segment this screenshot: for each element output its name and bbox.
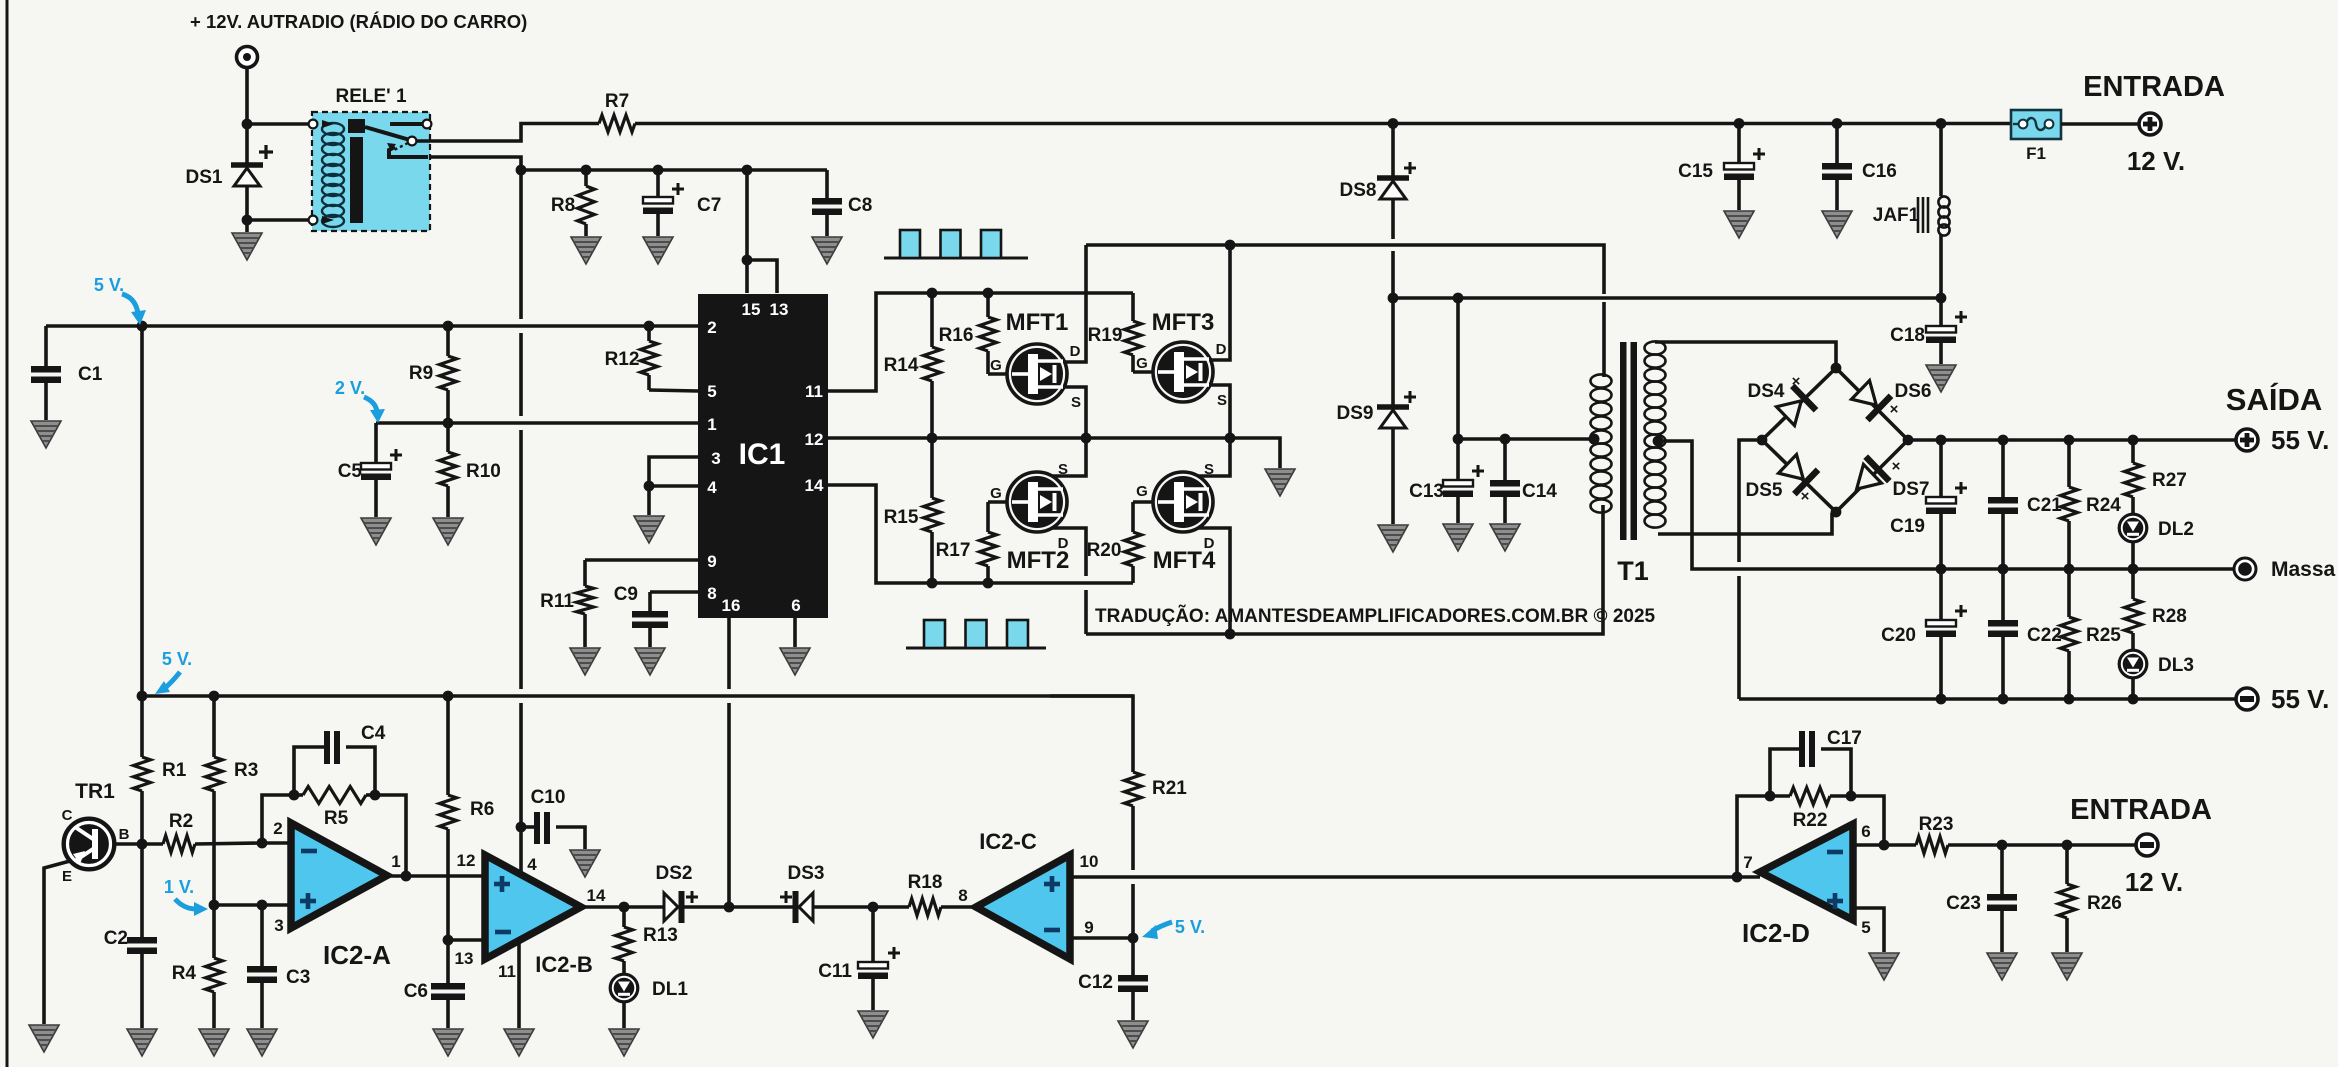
pin D MFT4 (1204, 535, 1215, 552)
svg-text:C6: C6 (404, 981, 428, 1002)
title +12V AUTRADIO (190, 11, 527, 32)
svg-text:5 V.: 5 V. (162, 649, 192, 669)
IC IC1 (698, 294, 828, 618)
capacitor C8 (812, 170, 872, 236)
wire drain top line (1086, 240, 1604, 294)
svg-text:2: 2 (707, 318, 716, 337)
bridge arm DS6 (1836, 368, 1908, 440)
svg-text:G: G (990, 357, 1002, 374)
capacitor C14 (1490, 439, 1557, 523)
wire IC2-A out to IC2-B (387, 871, 485, 882)
svg-text:12 V.: 12 V. (2127, 146, 2185, 176)
capacitor C20 (1881, 569, 1967, 699)
wire R23 to terminal (1948, 840, 2136, 851)
ground under C9 (635, 648, 665, 675)
svg-text:C12: C12 (1078, 972, 1113, 993)
relay RELE' 1 (309, 86, 432, 231)
op-amp IC2-D (1742, 824, 1853, 948)
capacitor C13 (1409, 439, 1484, 523)
wire pin2 net IC2-A (257, 838, 291, 849)
svg-text:×: × (1890, 401, 1899, 418)
wire IC1 pin4 (644, 481, 698, 515)
page border line left (6, 0, 9, 1067)
resistor R3 (206, 696, 259, 905)
resistor R22 (1765, 788, 1857, 832)
svg-text:C4: C4 (361, 723, 386, 744)
bridge arm DS4 (1762, 368, 1836, 440)
label 5V at IC2-C (1175, 917, 1205, 937)
diode DS4 (1748, 373, 1816, 428)
resistor R17 (936, 502, 1007, 583)
transformer T1 core (1620, 342, 1637, 540)
led DL2 (2119, 514, 2194, 569)
svg-text:R22: R22 (1793, 810, 1828, 831)
wire DS1 to ground node (242, 186, 253, 232)
wire IC2-D pin6 (1853, 840, 1916, 851)
svg-text:IC2-A: IC2-A (323, 940, 391, 970)
arrow 1V (175, 899, 208, 916)
wire TR1 base (115, 839, 163, 850)
svg-text:5: 5 (707, 382, 716, 401)
transistor MFT4 (1153, 472, 1216, 574)
svg-text:+ 12V. AUTRADIO (RÁDIO DO CARR: + 12V. AUTRADIO (RÁDIO DO CARRO) (190, 11, 527, 32)
svg-text:DS4: DS4 (1748, 381, 1785, 402)
svg-text:DS2: DS2 (656, 863, 693, 884)
svg-text:×: × (1801, 488, 1810, 505)
svg-text:3: 3 (711, 449, 720, 468)
ground under C7 (643, 237, 673, 264)
resistor R6 (440, 696, 495, 940)
wire secondary center tap to Massa line (1658, 441, 2234, 574)
label ENTRADA top (2083, 71, 2225, 103)
pin 8 IC2-C (958, 886, 967, 905)
svg-text:IC2-B: IC2-B (535, 952, 592, 977)
wire pin3 net IC2-A (209, 900, 291, 911)
svg-text:SAÍDA: SAÍDA (2226, 382, 2322, 417)
svg-text:5: 5 (1861, 918, 1870, 937)
svg-text:14: 14 (805, 476, 824, 495)
diode DS7 (1845, 457, 1930, 502)
svg-text:12 V.: 12 V. (2125, 867, 2183, 897)
svg-text:MFT3: MFT3 (1152, 309, 1215, 336)
svg-text:1: 1 (707, 415, 716, 434)
bridge arm DS5 (1762, 440, 1836, 512)
pin G MFT3 (1136, 355, 1148, 372)
ground under C18 (1926, 365, 1956, 392)
pin G MFT1 (990, 357, 1002, 374)
ground under C6 (433, 1029, 463, 1056)
svg-text:R19: R19 (1088, 325, 1123, 346)
svg-text:C2: C2 (104, 928, 128, 949)
wire branch to pin 13 (747, 260, 777, 293)
svg-text:R15: R15 (884, 507, 919, 528)
resistor R11 on pin9 (540, 560, 698, 647)
transistor MFT2 (1007, 472, 1070, 574)
wire relay contact-2 down to supply column (430, 157, 521, 170)
ground under DS9 (1378, 428, 1408, 552)
svg-text:IC2-D: IC2-D (1742, 918, 1810, 948)
bridge nodes (1757, 363, 1914, 518)
pin 7 IC2-D (1743, 853, 1752, 872)
resistor R20 (1087, 502, 1153, 583)
wire node to relay coil top (247, 122, 311, 126)
svg-text:T1: T1 (1617, 556, 1649, 586)
svg-text:D: D (1070, 343, 1081, 360)
svg-text:R3: R3 (234, 760, 258, 781)
wire IC1 pin3 (649, 457, 698, 486)
pin 1 IC2-A (391, 852, 400, 871)
svg-text:RELE' 1: RELE' 1 (335, 86, 406, 107)
ground under R4 (199, 1029, 229, 1056)
capacitor C19 (1890, 440, 1967, 569)
capacitor C1 (31, 326, 103, 420)
pin 13 IC2-B (455, 949, 474, 968)
svg-text:R14: R14 (884, 355, 919, 376)
svg-text:IC2-C: IC2-C (979, 829, 1037, 854)
wire riser to IC1 pins 15/13 (742, 170, 753, 293)
wire R16 to MFT1 gate (988, 372, 1007, 376)
resistor R13 (616, 907, 678, 975)
svg-text:Massa: Massa (2271, 558, 2336, 581)
capacitor C12 (1078, 938, 1148, 1020)
svg-text:C22: C22 (2027, 625, 2062, 646)
feedback left branch IC2-D (1737, 796, 1770, 877)
bridge arm DS7 (1836, 440, 1908, 512)
resistor R1 (134, 696, 187, 844)
wire F1 to 12V terminal (2061, 122, 2139, 126)
pin 14 IC2-B (587, 886, 606, 905)
wire left column 5V down (140, 326, 144, 696)
svg-text:10: 10 (1080, 852, 1099, 871)
svg-text:S: S (1071, 394, 1081, 411)
wire supply to center tap (1453, 298, 1600, 444)
resistor R15 (884, 438, 941, 583)
svg-text:C19: C19 (1890, 516, 1925, 537)
capacitor C5 (338, 423, 402, 517)
svg-text:R26: R26 (2087, 893, 2122, 914)
ground under C15 (1724, 211, 1754, 238)
ground under IC2-D pin5 (1869, 953, 1899, 980)
svg-text:F1: F1 (2026, 144, 2046, 163)
pin 9 IC2-C (1084, 918, 1093, 937)
wire DS3 to R18 (813, 902, 909, 913)
svg-text:×: × (1792, 373, 1801, 390)
svg-text:DS3: DS3 (788, 863, 825, 884)
arrow 5V bottom (155, 672, 180, 694)
svg-text:R4: R4 (172, 963, 197, 984)
wire MFT2 drain (1052, 528, 1086, 634)
svg-text:R21: R21 (1152, 778, 1187, 799)
capacitor C21 (1988, 440, 2062, 569)
transistor TR1 (62, 780, 130, 885)
svg-text:C16: C16 (1862, 161, 1897, 182)
op-amp IC2-C (976, 829, 1070, 959)
capacitor C10 on pin4 (516, 787, 585, 849)
diode DS2 (656, 863, 698, 923)
wire 2V pin1 net (376, 418, 698, 429)
resistor R18 (908, 872, 976, 916)
transformer T1 primary (1589, 374, 1612, 512)
svg-text:D: D (1216, 341, 1227, 358)
wire MFT1 drain (1064, 245, 1086, 362)
svg-text:16: 16 (722, 596, 741, 615)
waveform pulses top (884, 230, 1028, 258)
svg-text:R24: R24 (2086, 495, 2121, 516)
svg-text:S: S (1217, 392, 1227, 409)
label 5V top (94, 275, 124, 295)
svg-text:R2: R2 (169, 811, 193, 832)
wire secondary top to bridge (1655, 342, 1836, 368)
wire drain top line lower part (1602, 302, 1606, 377)
svg-text:C17: C17 (1827, 728, 1862, 749)
ground under R11 (570, 648, 600, 675)
svg-text:ENTRADA: ENTRADA (2083, 71, 2225, 103)
wire pin13 net (443, 935, 485, 946)
svg-text:C11: C11 (818, 961, 852, 982)
svg-text:D: D (1058, 535, 1069, 552)
terminal Massa (2234, 558, 2256, 580)
wire supply line 298 (1388, 293, 1947, 304)
resistor R21 (1050, 696, 1187, 938)
ground under DL1 (609, 1029, 639, 1056)
svg-text:R9: R9 (409, 363, 433, 384)
svg-text:C15: C15 (1678, 161, 1713, 182)
ground under C11 (858, 1011, 888, 1038)
resistor R7 (599, 91, 635, 132)
svg-text:R17: R17 (936, 540, 971, 561)
pin D MFT2 (1058, 535, 1069, 552)
resistor R9 (409, 326, 457, 423)
svg-text:DL1: DL1 (652, 979, 688, 1000)
wire IC1 pin12 rail (828, 433, 1280, 468)
label T1 (1617, 556, 1649, 586)
inductor JAF1 (1873, 123, 1950, 298)
wire 5V pin2 net (46, 321, 698, 332)
ground under C3 (247, 1029, 277, 1056)
svg-text:R6: R6 (470, 799, 494, 820)
wire drain bottom line (1086, 505, 1603, 639)
op-amp IC2-A (291, 823, 391, 970)
pin D MFT3 (1216, 341, 1227, 358)
label 5V bottom (162, 649, 192, 669)
ground under IC1 pin4 (634, 516, 664, 543)
svg-text:TR1: TR1 (75, 780, 115, 803)
label 12V bottom (2125, 867, 2183, 897)
resistor R5 (289, 787, 381, 830)
capacitor C22 (1988, 569, 2062, 699)
capacitor C3 (247, 905, 310, 1028)
diode DS1 (186, 145, 273, 188)
svg-text:55 V.: 55 V. (2271, 684, 2329, 714)
wire node to relay coil bottom (247, 218, 311, 222)
pin S MFT1 (1071, 394, 1081, 411)
resistor R10 (440, 423, 501, 517)
wire DS8 to supply node (1391, 199, 1395, 298)
svg-text:4: 4 (707, 478, 717, 497)
svg-text:3: 3 (274, 916, 283, 935)
capacitor C9 on pin8 (614, 584, 698, 647)
pin 2 IC2-A (273, 819, 282, 838)
svg-text:C18: C18 (1890, 325, 1925, 346)
watermark TRADUCAO (1095, 605, 1656, 627)
terminal +12V autradio (237, 47, 258, 68)
ground under C16 (1822, 211, 1852, 238)
ground under IC2-B pin11 (504, 941, 534, 1056)
svg-text:DS6: DS6 (1895, 381, 1932, 402)
pin S MFT4 (1204, 461, 1214, 478)
wire IC2-C pin10 to IC2-D pin7 (1070, 872, 1760, 883)
svg-text:×: × (1892, 458, 1901, 475)
svg-text:5 V.: 5 V. (94, 275, 124, 295)
svg-text:E: E (62, 868, 72, 885)
resistor R14 (884, 293, 941, 438)
svg-text:4: 4 (527, 855, 537, 874)
svg-text:R12: R12 (605, 349, 640, 370)
ground under C2 (127, 1029, 157, 1056)
svg-text:D: D (1204, 535, 1215, 552)
wire +55V line (1908, 435, 2236, 446)
ground under C10 (570, 850, 600, 877)
transformer T1 secondary (1645, 341, 1666, 527)
pin G MFT4 (1136, 483, 1148, 500)
capacitor C16 (1822, 123, 1897, 210)
capacitor C4 (294, 723, 386, 795)
ground under DS1 (232, 233, 262, 260)
capacitor C7 (643, 170, 721, 236)
ground under C1 (31, 421, 61, 448)
svg-text:C21: C21 (2027, 495, 2062, 516)
diode DS3 (780, 863, 824, 923)
capacitor C6 (404, 940, 465, 1028)
svg-text:R27: R27 (2152, 470, 2187, 491)
wire secondary bottom to bridge (1658, 512, 1836, 534)
svg-text:R13: R13 (643, 925, 678, 946)
pin 6 IC2-D (1861, 822, 1870, 841)
svg-text:7: 7 (1743, 853, 1752, 872)
ground under R26 (2052, 953, 2082, 980)
svg-text:R20: R20 (1087, 540, 1122, 561)
transistor MFT1 (1006, 309, 1069, 404)
wire IC2-D pin5 to ground (1853, 908, 1884, 952)
svg-text:R25: R25 (2086, 625, 2121, 646)
resistor R12 (605, 326, 698, 391)
wire R7 line to fuse F1 (635, 118, 2011, 129)
pin G MFT2 (990, 485, 1002, 502)
resistor R25 (2061, 569, 2122, 699)
svg-text:JAF1: JAF1 (1873, 205, 1920, 226)
pin 10 IC2-C (1080, 852, 1099, 871)
svg-text:8: 8 (958, 886, 967, 905)
fuse F1 (2011, 110, 2061, 163)
wire IC2-C pin9 (1070, 933, 1138, 944)
pin 12 IC2-B (457, 851, 476, 870)
terminal ENTRADA 12V plus (2139, 113, 2161, 135)
svg-text:2 V.: 2 V. (335, 378, 365, 398)
op-amp IC2-B (485, 855, 593, 977)
arrow 5V at IC2-C (1142, 922, 1172, 939)
terminal -55V (2236, 688, 2258, 710)
svg-text:R28: R28 (2152, 606, 2187, 627)
svg-text:1 V.: 1 V. (164, 877, 194, 897)
resistor R26 (2059, 845, 2122, 952)
ground under C14 (1490, 524, 1520, 551)
terminal ENTRADA 12V minus (2136, 834, 2158, 856)
svg-text:DL2: DL2 (2158, 519, 2194, 540)
label 12V top (2127, 146, 2185, 176)
diode DS8 (1340, 123, 1416, 201)
label ENTRADA bottom (2070, 794, 2212, 826)
svg-text:DS9: DS9 (1337, 403, 1374, 424)
svg-text:C23: C23 (1946, 893, 1981, 914)
wire DS2 to DS3 (683, 902, 793, 913)
ground under C23 (1987, 953, 2017, 980)
capacitor C11 (818, 907, 900, 1010)
wire R19 to MFT3 gate (1133, 370, 1153, 374)
wire relay contact-1 to R7 line (416, 124, 599, 142)
diode DS9 (1337, 298, 1416, 428)
svg-text:9: 9 (707, 552, 716, 571)
capacitor C18 (1890, 298, 1967, 364)
ground under C5 (361, 518, 391, 545)
svg-text:IC1: IC1 (739, 438, 786, 471)
resistor R24 (2061, 440, 2122, 569)
resistor R23 (1916, 814, 1953, 854)
svg-text:R10: R10 (466, 461, 501, 482)
ground under C12 (1118, 1021, 1148, 1048)
resistor R2 (163, 811, 262, 853)
capacitor C2 (104, 844, 157, 1028)
svg-text:G: G (1136, 483, 1148, 500)
svg-text:13: 13 (770, 300, 789, 319)
pin 11 IC2-B (498, 962, 516, 981)
svg-text:15: 15 (742, 300, 761, 319)
svg-text:ENTRADA: ENTRADA (2070, 794, 2212, 826)
pin 3 IC2-A (274, 916, 283, 935)
svg-text:13: 13 (455, 949, 474, 968)
svg-text:C9: C9 (614, 584, 638, 605)
wire bottom 5V rail (137, 691, 1133, 702)
svg-text:55 V.: 55 V. (2271, 425, 2329, 455)
arrow 5V top (122, 294, 146, 325)
svg-text:DS7: DS7 (1893, 479, 1930, 500)
resistor R27 (2125, 440, 2187, 514)
svg-text:R5: R5 (324, 808, 349, 829)
capacitor C17 (1770, 728, 1862, 796)
waveform pulses bottom (906, 620, 1046, 648)
resistor R16 (939, 293, 997, 374)
svg-text:G: G (1136, 355, 1148, 372)
svg-text:R1: R1 (162, 760, 187, 781)
wire terminal to DS1 node (242, 67, 253, 163)
terminal +55V (2236, 429, 2258, 451)
wire MFT3 drain (1210, 245, 1230, 360)
wire MFT2 source (1052, 438, 1086, 476)
svg-text:C14: C14 (1522, 481, 1557, 502)
capacitor C23 (1946, 845, 2017, 952)
svg-text:C20: C20 (1881, 625, 1916, 646)
svg-text:B: B (119, 826, 130, 843)
svg-text:MFT1: MFT1 (1006, 309, 1069, 336)
resistor R28 (2125, 569, 2187, 650)
svg-text:12: 12 (457, 851, 476, 870)
feedback loop C4/R5 left branch (262, 795, 294, 843)
svg-text:R8: R8 (551, 195, 575, 216)
led DL3 (2119, 650, 2194, 699)
svg-text:9: 9 (1084, 918, 1093, 937)
wire IC2-B output (581, 902, 664, 913)
svg-text:DL3: DL3 (2158, 655, 2194, 676)
svg-text:C10: C10 (531, 787, 566, 808)
